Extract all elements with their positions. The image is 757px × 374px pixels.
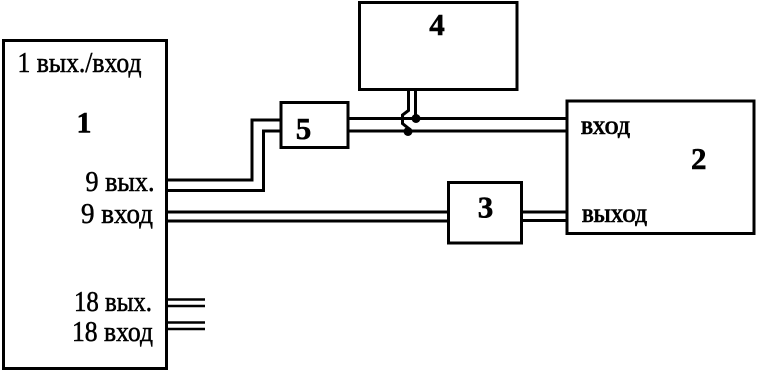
designator 3 (478, 190, 494, 225)
block 2 (measuring instrument) (567, 101, 754, 234)
block 1 (tested device) (4, 41, 167, 369)
svg-text:2: 2 (691, 141, 707, 176)
wire: 18 вход stub upper (167, 321, 205, 324)
designator 2 (691, 141, 707, 176)
designator 1 (77, 107, 92, 140)
wire: 9 вход lower line block1 to block3 (166, 220, 449, 223)
svg-text:1 вых./вход: 1 вых./вход (18, 47, 142, 79)
wire: block1 9 вых. lower line to block5 left (166, 131, 281, 191)
designator 5 (296, 111, 312, 146)
wire: lower line block3 to block2 (выход) (521, 219, 567, 222)
svg-text:4: 4 (429, 7, 445, 42)
svg-text:18 вых.: 18 вых. (74, 286, 152, 318)
label "9 вых." (86, 166, 155, 198)
svg-text:ВХОД: ВХОД (581, 118, 630, 139)
wire: 9 вход upper line block1 to block3 (166, 211, 449, 214)
svg-text:9 вход: 9 вход (81, 198, 153, 230)
wire: left drop from block 4 with jog (403, 89, 409, 132)
svg-text:ВЫХОД: ВЫХОД (582, 206, 647, 227)
junction dot upper (412, 114, 421, 123)
wire: lower line block5 right to block2 left (вход) (348, 130, 567, 133)
svg-text:1: 1 (77, 107, 92, 140)
svg-text:18 вход: 18 вход (72, 316, 153, 348)
wire: right drop from block 4 (414, 89, 417, 119)
block 5 (adapter) (281, 103, 348, 148)
label ВХОД (581, 118, 630, 139)
junction dot lower (404, 127, 413, 136)
label "1 вых./вход" (18, 47, 142, 79)
svg-text:9 вых.: 9 вых. (86, 166, 155, 198)
label "9 вход" (81, 198, 153, 230)
block 4 (generator) (360, 3, 518, 90)
wire: block1 9 вых. upper line to block5 left (166, 120, 281, 180)
designator 4 (429, 7, 445, 42)
svg-text:5: 5 (296, 111, 312, 146)
wire: upper line block3 to block2 (выход) (521, 211, 567, 214)
label "18 вых." (74, 286, 152, 318)
wire: upper line block5 right to block2 left (вход) (348, 117, 567, 120)
wire: 18 вых. stub lower (167, 305, 205, 308)
block 3 (attenuator) (449, 183, 522, 244)
wire: 18 вых. stub upper (167, 298, 205, 301)
label ВЫХОД (582, 206, 647, 227)
svg-text:3: 3 (478, 190, 494, 225)
wire: 18 вход stub lower (167, 328, 205, 331)
label "18 вход" (72, 316, 153, 348)
